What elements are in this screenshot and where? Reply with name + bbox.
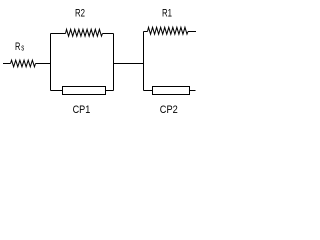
node B middle vertical bar [113, 34, 115, 91]
node C right vertical bar [143, 32, 145, 91]
svg-text:R: R [15, 41, 20, 53]
wire right terminal lead bottom [190, 90, 196, 92]
wire connector between blocks [114, 63, 144, 65]
wire Rs to node A [36, 63, 51, 65]
svg-text:CP1: CP1 [73, 104, 91, 116]
wire bottom rail right of CP1 [106, 90, 114, 92]
wire top rail left of R1 [144, 31, 148, 33]
capacitor CP1 (constant phase element box) [63, 87, 106, 95]
capacitor CP2 (constant phase element box) [153, 87, 190, 95]
svg-text:R1: R1 [162, 7, 172, 19]
wire bottom rail left of CP1 [51, 90, 63, 92]
wire left terminal lead [3, 63, 11, 65]
svg-text:R2: R2 [75, 7, 85, 19]
wire top rail right of R2 [103, 33, 114, 35]
svg-text:CP2: CP2 [160, 104, 178, 116]
wire bottom rail left of CP2 [144, 90, 153, 92]
wire top rail left of R2 [51, 33, 66, 35]
resistor Rs [11, 60, 36, 67]
resistor R1 [148, 27, 189, 34]
wire right terminal lead top [188, 31, 196, 33]
node A left vertical bar [50, 34, 52, 91]
resistor R2 [66, 29, 103, 36]
svg-text:s: s [21, 42, 24, 53]
